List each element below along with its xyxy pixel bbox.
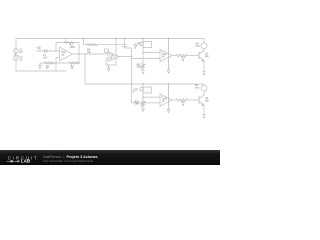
svg-text:5V: 5V [20,51,23,54]
wire left branch [15,39,17,72]
svg-text:100k: 100k [70,46,76,49]
wire Q2 emitter to ground [203,105,205,115]
svg-text:mot: mot [196,45,200,48]
svg-text:npn: npn [205,100,210,103]
capacitor C1 (series, vertical plates) [43,49,48,53]
resistor R1 [44,62,54,64]
wire from column to U3 minus [132,57,161,59]
ground under U2 loop [107,65,111,71]
wire sensor column top [142,39,144,64]
wire M1 to Q1 collector [203,49,205,51]
wire op-amp U1 + input [36,50,60,52]
wire U3 plus input [143,52,160,54]
wire mid column [125,39,132,103]
resistor R4 on bus [87,44,97,46]
wire lower rail [85,83,204,85]
sensor box loop top [143,42,152,48]
wire U1 output to U2 [73,53,109,55]
ground stub at output node [84,54,86,84]
wire U4 output [172,99,176,101]
voltage source V2 [14,56,19,61]
op-amp U1 power stub [65,39,67,43]
op-amp U2 [108,52,119,62]
wire feedback riser [78,43,80,64]
op-amp U1 [60,47,73,61]
wire reference bus [83,39,85,45]
capacitor C2 on column [122,45,127,47]
wire U1 minus loop [56,58,60,72]
svg-text:LAB: LAB [21,159,31,164]
motor M1 [201,43,207,49]
wire R5 to Q1 base [188,55,199,57]
op-amp U4 [160,94,172,106]
transistor Q1 [199,51,204,61]
wire bottom edge of input loop [16,70,67,72]
resistor R6 [176,99,188,101]
wire U2 minus feedback loop [106,59,116,65]
potentiometer RV1 [142,63,145,69]
sensor body top [140,42,143,45]
svg-text:mot: mot [195,87,199,90]
wire sensor column bottom [142,84,144,101]
node polarity marks between V1 and V2 [14,54,19,56]
svg-text:10k: 10k [87,51,92,54]
ground stub under U4 [167,84,171,113]
ground at chain start [38,63,42,69]
CircuitLab logo [0,150,40,165]
wire rail to M1 [203,39,205,43]
sensor box loop bottom [143,87,152,93]
motor M2 [201,85,207,91]
wire column to U4 minus [132,102,161,104]
junction dots [55,38,169,98]
ground stub under U3 [167,39,171,74]
node flag at input [37,47,40,51]
voltage source V1 [14,49,19,54]
ground under Q1 [202,72,206,75]
resistor R5 [176,54,188,56]
wire M2 to Q2 collector [203,91,205,95]
wire top supply rail [16,38,204,40]
wire R6 to Q2 base [188,99,199,101]
svg-text:npn: npn [205,55,210,58]
ground under Q2 [202,115,206,118]
op-amp U2 power vertical [115,39,117,66]
wire U4 plus input [143,96,160,98]
svg-text:1V: 1V [20,58,23,61]
potentiometer RV2 [142,101,145,107]
wire U3 output [172,55,176,57]
resistor R3 [69,62,79,64]
op-amp U3 [160,49,172,62]
wire bottom resistor chain [40,62,79,64]
footer text line 2 [43,159,93,163]
footer bar [0,150,220,165]
sensor body bottom [140,88,143,91]
resistor R2 in feedback [64,42,74,44]
ground under RV1 [141,69,145,74]
wire U1 feedback loop top [56,43,79,52]
wire U2 output [119,56,132,58]
footer text line 1 [43,155,98,159]
transistor Q2 [199,95,204,105]
svg-text:1uF: 1uF [43,57,48,60]
ground under RV2 [141,107,145,112]
node flag box at U2 input [105,49,109,52]
wire Q1 emitter to ground [203,60,205,71]
